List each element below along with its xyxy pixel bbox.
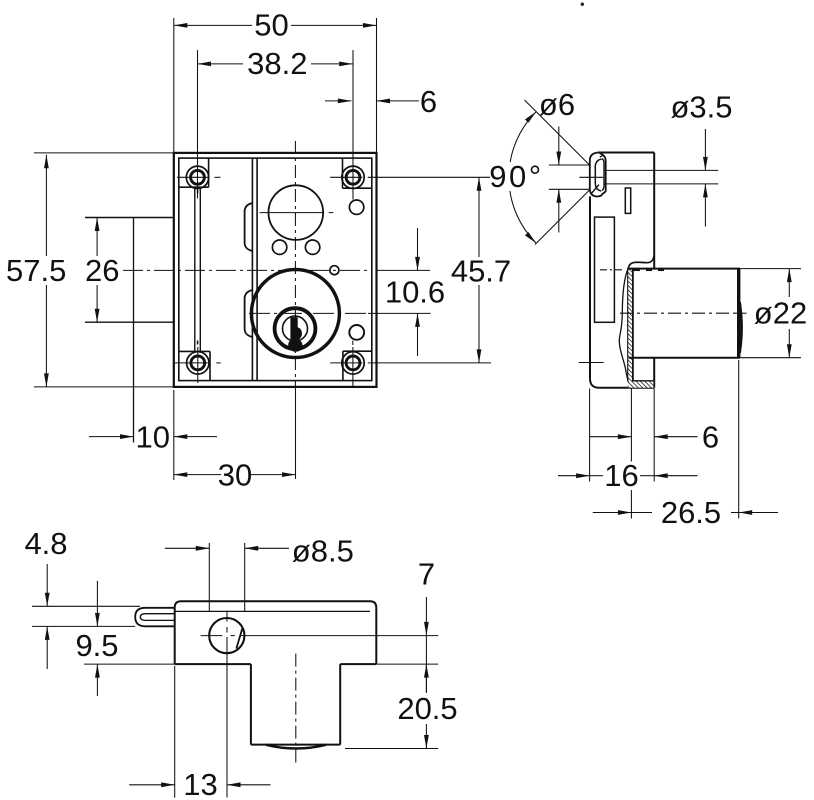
svg-text:9.5: 9.5	[75, 628, 118, 663]
svg-text:10: 10	[136, 419, 170, 454]
svg-text:ø22: ø22	[754, 296, 807, 331]
svg-text:50: 50	[254, 8, 288, 43]
svg-text:38.2: 38.2	[247, 46, 307, 81]
svg-text:ø3.5: ø3.5	[670, 90, 732, 125]
svg-text:4.8: 4.8	[24, 526, 67, 561]
svg-text:26.5: 26.5	[661, 495, 721, 530]
svg-text:6: 6	[420, 84, 437, 119]
svg-text:26: 26	[85, 253, 119, 288]
svg-text:ø6: ø6	[539, 87, 575, 122]
svg-text:30: 30	[218, 457, 252, 492]
svg-text:20.5: 20.5	[397, 691, 457, 726]
svg-text:ø8.5: ø8.5	[292, 533, 354, 568]
svg-text:16: 16	[604, 458, 638, 493]
svg-text:45.7: 45.7	[451, 253, 511, 288]
svg-text:7: 7	[418, 557, 435, 592]
svg-text:57.5: 57.5	[6, 253, 66, 288]
svg-text:6: 6	[702, 419, 719, 454]
svg-text:13: 13	[183, 767, 217, 800]
svg-text:10.6: 10.6	[385, 275, 445, 310]
svg-text:90°: 90°	[489, 159, 543, 194]
